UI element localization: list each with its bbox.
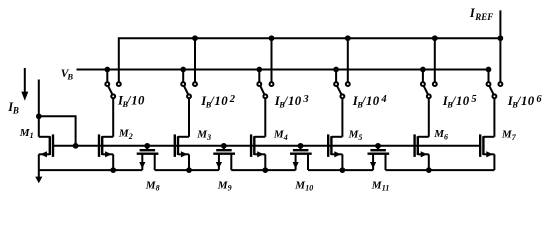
svg-text:B: B [66,71,73,81]
switch S6 blade [489,86,493,95]
node: top rail junction col5 [432,35,438,41]
svg-text:1: 1 [214,94,220,108]
switch S5 left throw contact [421,82,425,86]
switch S2 right throw contact [193,82,197,86]
switch S6 left throw contact [487,82,491,86]
svg-text:0: 0 [295,94,302,108]
label M_11 [371,179,390,192]
wire: switch S6 pole to M7 drain [493,98,495,137]
switch S3 pole contact [263,94,267,98]
node: M1 drain/diode junction [36,113,42,119]
node: M2 source junction on bottom rail [110,167,116,173]
switch S2 blade [184,86,188,95]
switch S2 pole contact [187,94,191,98]
transistor M7 [480,134,494,170]
switch S4 left throw contact [334,82,338,86]
svg-text:1: 1 [131,94,137,108]
svg-text:3: 3 [206,133,211,142]
svg-text:9: 9 [228,184,232,193]
wire: col1 left throw stub [106,70,108,83]
switch S5 pole contact [427,94,431,98]
svg-text:4: 4 [283,133,288,142]
wire: col6 left throw stub [488,70,490,83]
wire: switch S2 pole to M3 drain [188,98,190,137]
wire: bottom rail segment 1 [39,169,143,171]
label M_6 [433,128,448,141]
label M_5 [348,128,363,141]
switch S6 pole contact [492,94,496,98]
switch S1 blade [108,86,112,95]
node: top rail right end junction [498,35,504,41]
wire: switch S5 pole to M6 drain [428,98,430,137]
wire: col2 left throw stub [182,70,184,83]
wire: switch S1 pole to M2 drain [112,98,114,137]
label M_10 [294,179,313,192]
node: V_B rail junction col4 [333,67,339,73]
node: M4 source junction on bottom rail [262,167,268,173]
transistor M6 [415,134,429,170]
wire: col5 right throw to top rail [434,38,436,82]
wire: switch S4 pole to M5 drain [341,98,343,137]
label I_B/10^4 [352,94,387,110]
node: top rail junction col3 [269,35,275,41]
node: M6 source junction on bottom rail [426,167,432,173]
svg-text:5: 5 [358,133,362,142]
switch S1 right throw contact [117,82,121,86]
svg-text:11: 11 [382,184,390,193]
wire: I_B input wire [38,80,40,117]
node: V_B rail junction col2 [180,67,186,73]
svg-text:5: 5 [471,94,476,105]
wire: bottom rail segment 2 [155,169,219,171]
wire: bottom rail segment 5 [386,169,495,171]
label I_B/10 [117,94,145,109]
wire: bottom rail segment 4 [308,169,373,171]
svg-text:0: 0 [528,94,535,108]
label I_B/10^6 [507,94,543,110]
switch S5 blade [424,86,428,95]
node: M3 source junction on bottom rail [186,167,192,173]
wire: bottom rail segment 3 [231,169,295,171]
node: diode connection to gate rail [73,143,79,149]
wire: col2 right throw to top rail [194,38,196,82]
transistor M1 [39,134,53,170]
svg-text:1: 1 [521,94,527,108]
label I_B [7,100,19,116]
svg-text:1: 1 [366,94,372,108]
wire: M1 diode connection (drain to gate) [39,116,76,146]
svg-text:1: 1 [30,131,34,140]
wire: common gate rail [53,145,480,147]
label I_B/10^2 [200,94,236,110]
label M_9 [217,179,232,192]
current arrow I_B [21,68,28,101]
node: M5 source junction on bottom rail [340,167,346,173]
wire: col5 left throw stub [422,70,424,83]
svg-text:0: 0 [221,94,228,108]
svg-text:6: 6 [536,94,542,105]
wire: col3 right throw to top rail [271,38,273,82]
transistor M5 [328,134,342,170]
node: V_B rail junction col1 [104,67,110,73]
switch S4 right throw contact [346,82,350,86]
transistor M2 [99,134,113,170]
transistor M3 [175,134,189,170]
label M_7 [501,128,517,141]
switch S1 left throw contact [105,82,109,86]
transistor M8 (with gate node) [137,143,159,170]
transistor M9 (with gate node) [213,143,235,170]
svg-text:10: 10 [305,184,313,193]
label I_B/10^5 [442,94,477,110]
label I_REF [469,6,493,22]
svg-text:2: 2 [229,94,236,105]
node: top rail junction col2 [192,35,198,41]
svg-text:B: B [12,106,19,116]
node: top rail junction col4 [345,35,351,41]
label M_2 [118,127,133,140]
svg-text:0: 0 [463,94,470,108]
label M_3 [196,128,211,141]
label I_B/10^3 [274,94,309,110]
wire: V_B bias rail [77,69,489,71]
switch S6 right throw contact [498,82,502,86]
ground [35,170,42,183]
node: V_B rail junction col6 [486,67,492,73]
switch S4 blade [337,86,342,95]
svg-text:0: 0 [373,94,380,108]
wire: col3 left throw stub [258,70,260,83]
svg-text:1: 1 [288,94,294,108]
switch S3 left throw contact [257,82,261,86]
transistor M10 (with gate node) [290,143,312,170]
svg-text:1: 1 [456,94,462,108]
label M_1 [19,127,34,140]
node: V_B rail junction col3 [256,67,262,73]
switch S4 pole contact [340,94,344,98]
label M_8 [145,179,160,192]
svg-text:8: 8 [156,184,160,193]
label V_B [61,68,74,81]
wire: switch S3 pole to M4 drain [264,98,266,137]
svg-text:2: 2 [128,132,133,141]
svg-text:0: 0 [138,94,145,108]
transistor M4 [251,134,265,170]
svg-text:REF: REF [474,12,493,22]
wire: I_REF output [499,10,501,82]
wire: M1 drain drop [38,116,40,137]
wire: col4 right throw to top rail [347,38,349,82]
switch S3 right throw contact [270,82,274,86]
switch S1 pole contact [111,94,115,98]
switch S3 blade [260,86,264,95]
wire: col4 left throw stub [335,70,337,83]
node: V_B rail junction col5 [420,67,426,73]
label M_4 [273,128,288,141]
switch S2 left throw contact [181,82,185,86]
svg-text:4: 4 [380,94,386,105]
wire: IREF summing rail (top) [119,38,501,82]
svg-text:3: 3 [302,94,308,105]
transistor M11 (with gate node) [368,143,390,170]
switch S5 right throw contact [433,82,437,86]
svg-text:6: 6 [444,133,448,142]
